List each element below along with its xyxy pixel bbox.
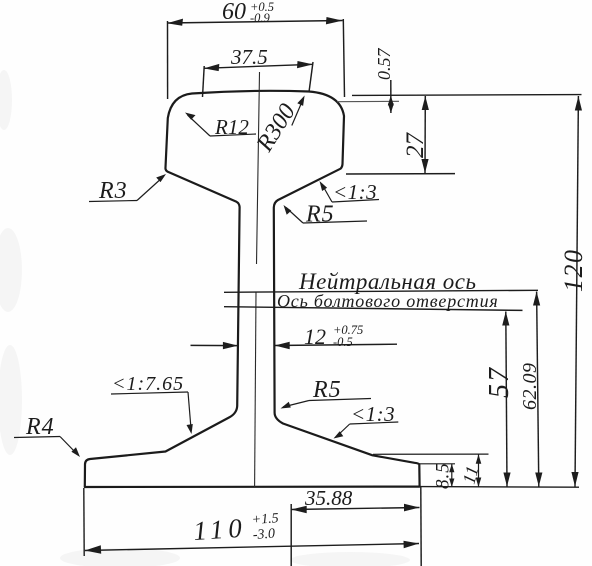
svg-text:120: 120 <box>559 249 588 293</box>
head top datum line <box>352 94 582 97</box>
dimension 8.5 <box>417 463 455 465</box>
svg-text:R4: R4 <box>25 414 55 440</box>
svg-text:Ось болтового отверстия: Ось болтового отверстия <box>277 291 499 311</box>
dimension 35.88 <box>291 487 421 566</box>
dimension 0.57 <box>390 80 392 113</box>
svg-text:12: 12 <box>304 324 326 349</box>
bolt hole axis line <box>224 307 523 311</box>
foot bottom extension line <box>420 486 579 489</box>
svg-text:57: 57 <box>484 366 515 398</box>
svg-text:+1.5: +1.5 <box>251 511 279 528</box>
label R5 (lower) <box>283 399 371 408</box>
rail cross-section outline <box>85 91 420 487</box>
svg-text:62.09: 62.09 <box>519 363 541 411</box>
dimension 60 +0.5/-0.9 <box>167 19 345 99</box>
label R5 (upper) <box>286 208 367 224</box>
svg-text:R5: R5 <box>312 377 342 403</box>
svg-text:R12: R12 <box>214 115 249 139</box>
svg-text:60: 60 <box>222 0 246 25</box>
scan smudges background <box>0 70 410 566</box>
vertical center line <box>255 72 260 487</box>
dimension 57 <box>506 312 507 487</box>
svg-text:-0.9: -0.9 <box>250 11 271 25</box>
27 lower reference line <box>346 173 455 175</box>
svg-text:R3: R3 <box>98 178 128 204</box>
svg-text:<1:7.65: <1:7.65 <box>112 373 184 395</box>
svg-text:35.88: 35.88 <box>304 486 353 510</box>
dimension 37.5 <box>203 62 314 97</box>
svg-text:-0.5: -0.5 <box>333 335 353 349</box>
label R12 <box>188 115 257 136</box>
dimension 11 <box>373 453 489 455</box>
dimension 110 +1.5/-3.0 <box>84 488 419 556</box>
svg-text:<1:3: <1:3 <box>333 180 377 204</box>
dimension 62.09 <box>537 292 539 487</box>
svg-text:27: 27 <box>402 132 429 159</box>
svg-text:R5: R5 <box>305 202 335 228</box>
label R3 <box>89 177 164 202</box>
label <1:7.65 <box>111 392 191 431</box>
dimension 12 +0.75/-0.5 (web) <box>191 344 398 345</box>
label R300 (rotated) <box>292 98 304 126</box>
svg-text:8.5: 8.5 <box>433 462 454 489</box>
svg-text:37.5: 37.5 <box>230 45 268 69</box>
svg-text:-3.0: -3.0 <box>252 526 275 543</box>
svg-text:0.57: 0.57 <box>374 48 394 81</box>
neutral axis line <box>224 290 538 292</box>
label <1:3 (upper) <box>322 184 380 203</box>
dimension 120 <box>575 96 578 487</box>
label <1:3 (lower) <box>336 422 398 437</box>
svg-text:<1:3: <1:3 <box>351 402 395 426</box>
dimension 27 <box>424 96 426 173</box>
label R4 <box>14 437 78 455</box>
svg-text:110: 110 <box>192 512 247 546</box>
faint crown-edge line (0.57 ref) <box>337 100 399 102</box>
